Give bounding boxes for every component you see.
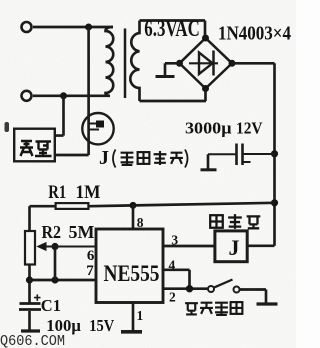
svg-text:Q606.COM: Q606.COM [0,333,65,348]
label chang-bi-jie-dian (pseudo glyphs) [121,153,134,165]
wire pin 8 [132,205,135,229]
wire pin 7 [30,279,97,282]
wire R1 to right rail [90,203,275,206]
switch contact circle right [234,287,240,293]
svg-text:J: J [229,235,240,260]
scan smudge left edge [5,122,10,132]
wire bridge left vertex to ground [165,63,180,76]
transformer T secondary winding [130,21,139,102]
node junction pin4/pin2 [186,285,193,292]
wire bridge bottom stub [204,89,207,102]
svg-text:R1: R1 [48,182,66,203]
wire R2 bottom to C1 [28,265,31,303]
6.3VAC box outline (secondary loop) [140,21,207,102]
node bridge top vertex [202,35,209,42]
svg-text:6: 6 [87,248,95,264]
diode D cathode bar [212,51,215,76]
svg-text:R2: R2 [42,222,62,242]
switch lever [215,280,233,288]
label ji-dian-qi relay (pseudo glyphs) [210,215,223,228]
wire V+ rail left corner [30,205,55,208]
node bridge left vertex [176,60,183,67]
svg-text:1N4003×4: 1N4003×4 [218,23,291,45]
wire pin 2 [163,287,208,290]
diode D anode line inside bridge [189,62,218,64]
svg-text:1M: 1M [76,182,101,203]
contact symbol inside circle [89,124,102,130]
capacitor C 3000u plates [237,144,243,166]
label fu-zai load (pseudo glyphs) [20,141,52,156]
svg-text:J: J [99,147,109,169]
node junction on terminal2 wire [60,92,67,99]
transformer core [124,29,127,99]
switch contact circle left [208,286,214,292]
wire relay to right rail [249,244,275,247]
svg-text:2: 2 [169,290,176,305]
wire terminal2 to primary bottom [33,94,110,97]
label qi-dong-fu-wei reset (pseudo glyphs) [185,303,198,314]
svg-text:3: 3 [171,233,178,248]
ground (C1) [21,329,40,332]
wire terminal1 to primary [33,26,113,29]
wire pin 6 / wiper [40,246,96,248]
wire down to contact J [87,27,90,155]
wire junction down to load box [56,96,64,136]
svg-text:4: 4 [169,258,176,273]
ground (switch) [257,302,278,305]
node junction tie/pin7 [51,276,58,283]
node junction on terminal1 wire [85,24,92,31]
transformer T primary winding [106,27,114,96]
wire bridge right vertex to right rail [232,62,275,65]
svg-text:C1: C1 [41,296,61,315]
svg-text:8: 8 [137,215,144,230]
C1 plus sign [34,294,41,301]
wire cap to right rail [243,153,275,155]
timer IC NE555 box [96,229,163,303]
wire contact to load [56,154,89,157]
svg-text:NE555: NE555 [104,261,160,286]
wire C1 to ground [28,311,31,330]
terminal input 1 [22,22,32,32]
capacitor polarity stub [243,161,251,163]
relay contact circle J (normally closed) [82,113,113,144]
wire switch to ground [240,290,267,304]
node V+ rail junction on right rail [271,199,278,206]
wire right vertical rail [273,63,276,246]
svg-text:7: 7 [86,263,94,279]
svg-text:6.3VAC: 6.3VAC [144,16,200,41]
svg-text:3000μ: 3000μ [185,119,232,138]
wire ground to cap plate [208,153,237,155]
node bridge bottom vertex [202,85,209,92]
diode D triangle [199,53,213,75]
potentiometer wiper arrow [38,243,47,251]
wire tie pin6 to pin7 [54,247,57,281]
svg-text:5M: 5M [69,222,95,242]
svg-text:1: 1 [137,308,144,323]
ground (3000u cap) [201,168,217,171]
svg-text:12V: 12V [236,119,263,138]
resistor R2 body (potentiometer) [25,231,35,265]
parens of contact label [113,150,188,168]
ground (bridge) [156,75,175,78]
node junction R2/pin7 [26,276,33,283]
resistor R1 body [56,203,89,209]
node pin8 junction on V+ rail [130,202,137,209]
capacitor C1 plates [19,304,41,310]
node junction tie/pin6 [51,243,58,250]
capacitor 3000u ground lead [207,154,210,169]
wire pin 3 to relay [163,245,214,248]
wire left rail down to R2 [28,206,31,231]
relay J box [215,231,247,262]
bridge rectifier diamond [180,38,233,89]
node cap junction on right rail [271,150,278,157]
svg-text:15V: 15V [89,316,115,335]
ground (pin 1) [121,330,142,334]
wire pin 1 to ground [132,303,135,331]
wire pin 4 [163,270,190,289]
terminal input 2 [22,91,32,101]
node bridge right vertex [229,60,236,67]
load box outline [14,129,55,162]
